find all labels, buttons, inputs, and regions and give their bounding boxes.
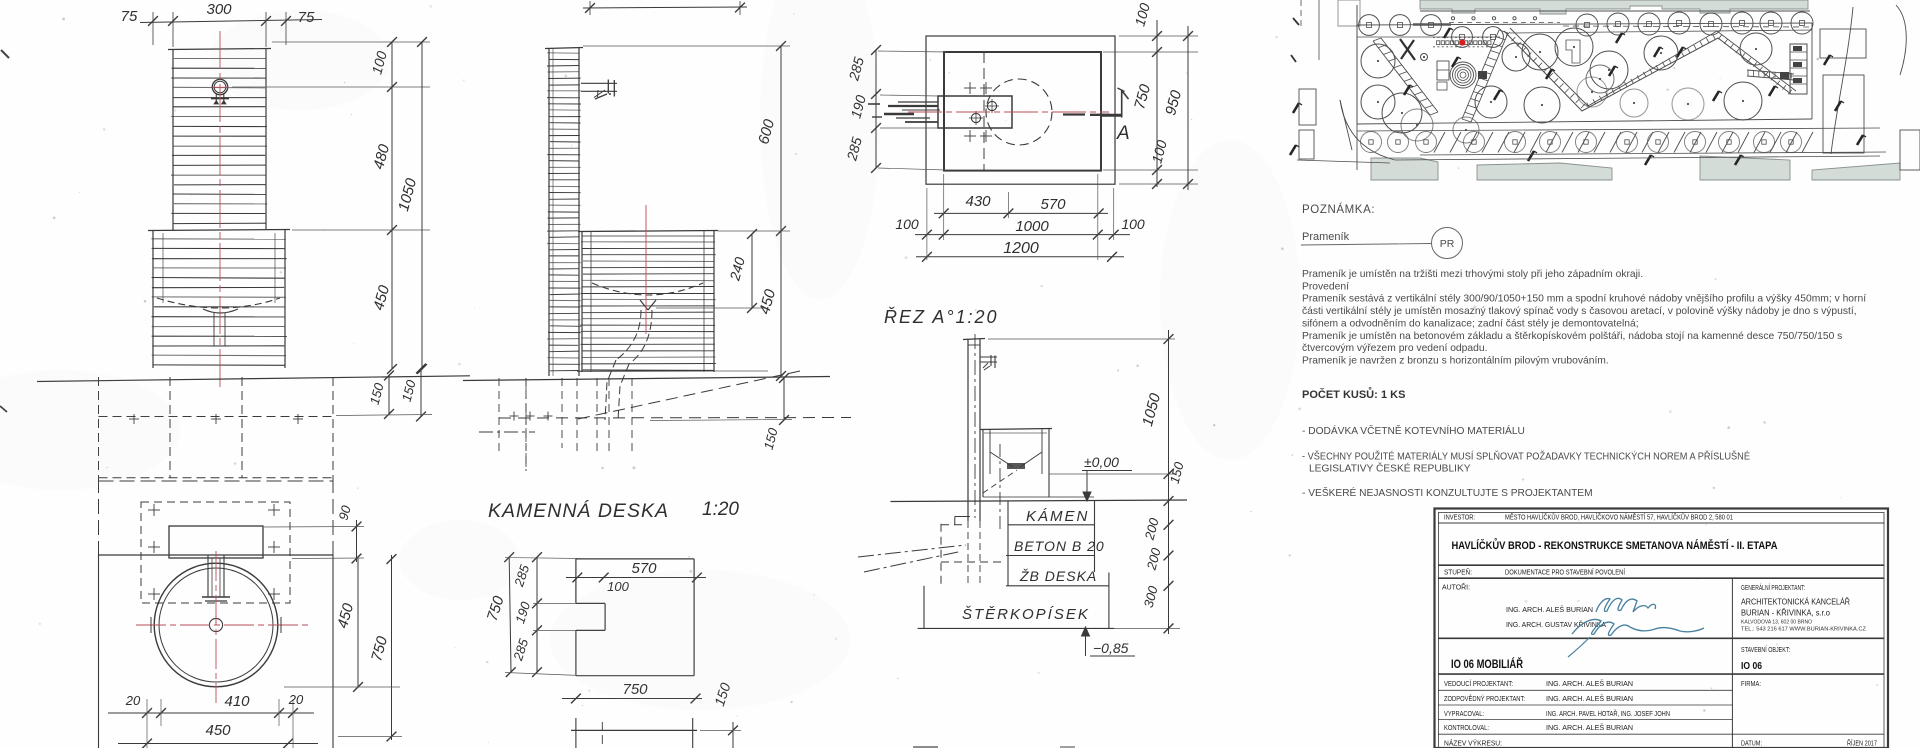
front elevation red center line bbox=[219, 31, 221, 387]
svg-text:části vertikální stély je umís: části vertikální stély je umístěn mosazn… bbox=[1302, 306, 1857, 317]
top plan left scribble strokes bbox=[868, 102, 940, 122]
top plan outer rectangle bbox=[926, 36, 1115, 184]
rez foundation layer zb deska bbox=[1006, 568, 1109, 628]
top plan bottom dimensions 430/570 100/1000/100 1200 bbox=[895, 174, 1145, 262]
svg-text:POČET KUSŮ:: POČET KUSŮ: bbox=[1302, 387, 1378, 401]
svg-text:20: 20 bbox=[288, 692, 304, 707]
top plan stele plate with bolt circles bbox=[938, 82, 1012, 142]
site plan bottom tree row bbox=[1361, 132, 1802, 153]
svg-text:ŠTĚRKOPÍSEK: ŠTĚRKOPÍSEK bbox=[962, 606, 1090, 623]
front elevation dashed foundation below ground bbox=[99, 377, 334, 478]
top plan inner rectangle bbox=[944, 52, 1101, 171]
svg-text:ING. ARCH. ALEŠ BURIAN: ING. ARCH. ALEŠ BURIAN bbox=[1546, 679, 1633, 688]
svg-text:STAVEBNÍ OBJEKT:: STAVEBNÍ OBJEKT: bbox=[1741, 645, 1790, 654]
notes bullet vsechny bbox=[1302, 450, 1750, 475]
svg-text:ING. ARCH. ALEŠ BURIAN: ING. ARCH. ALEŠ BURIAN bbox=[1546, 723, 1633, 732]
rez basin in section bbox=[980, 429, 1052, 530]
svg-text:- DODÁVKA VČETNĚ KOTEVNÍHO MAT: - DODÁVKA VČETNĚ KOTEVNÍHO MATERIÁLU bbox=[1302, 424, 1525, 437]
svg-text:75: 75 bbox=[121, 8, 138, 25]
svg-text:Prameník je navržen z bronzu s: Prameník je navržen z bronzu s horizontá… bbox=[1302, 356, 1609, 367]
side elevation cropped top dimension bbox=[583, 1, 747, 15]
plan view stele rectangle bbox=[169, 526, 263, 558]
front elevation stele column outline bbox=[168, 49, 271, 231]
site plan right side blocks bbox=[1820, 5, 1920, 170]
side elevation right dimensions 600/240/450 bbox=[583, 41, 790, 381]
site plan ladder path left bbox=[1373, 38, 1438, 115]
svg-text:VYPRACOVAL:: VYPRACOVAL: bbox=[1444, 711, 1484, 718]
svg-text:DOKUMENTACE PRO STAVEBNÍ POVOL: DOKUMENTACE PRO STAVEBNÍ POVOLENÍ bbox=[1505, 568, 1625, 577]
site plan plaza boundary bbox=[1357, 5, 1812, 124]
title block row vypracoval bbox=[1438, 709, 1732, 720]
title block outer frame bbox=[1435, 509, 1889, 748]
svg-text:INVESTOR:: INVESTOR: bbox=[1444, 515, 1475, 522]
top plan dashed circle of basin bbox=[986, 79, 1052, 145]
plan view inner dashed anchor square bbox=[141, 502, 290, 603]
svg-text:570: 570 bbox=[1040, 196, 1066, 213]
svg-text:100: 100 bbox=[1121, 216, 1145, 232]
svg-text:čtvercovým výřezem pro vedení: čtvercovým výřezem pro vedení odpadu. bbox=[1302, 343, 1487, 354]
svg-text:POZNÁMKA:: POZNÁMKA: bbox=[1302, 203, 1375, 216]
top plan red center line horizontal bbox=[908, 112, 1110, 115]
svg-text:DATUM:: DATUM: bbox=[1741, 741, 1762, 748]
rez section title bbox=[884, 307, 999, 327]
svg-text:IO 06 MOBILIÁŘ: IO 06 MOBILIÁŘ bbox=[1451, 656, 1523, 671]
svg-text:ŘÍJEN 2017: ŘÍJEN 2017 bbox=[1847, 739, 1877, 748]
svg-text:1200: 1200 bbox=[1003, 240, 1039, 257]
kamenna deska top dimension 570 and 100 bbox=[566, 560, 706, 594]
top plan dashed center line vertical bbox=[983, 52, 985, 170]
side elevation faucet bbox=[581, 80, 617, 100]
svg-text:IO 06: IO 06 bbox=[1741, 660, 1762, 672]
svg-text:ŽB DESKA: ŽB DESKA bbox=[1019, 568, 1097, 584]
svg-text:1:20: 1:20 bbox=[702, 499, 739, 520]
kamenna deska left dimensions 750 and 285/190/285 bbox=[484, 552, 580, 677]
svg-text:ING. ARCH. PAVEL HOTAŘ, ING. J: ING. ARCH. PAVEL HOTAŘ, ING. JOSEF JOHN bbox=[1546, 709, 1670, 718]
svg-text:KÁMEN: KÁMEN bbox=[1026, 508, 1089, 525]
site plan top tree row bbox=[1359, 12, 1813, 47]
svg-text:430: 430 bbox=[965, 193, 991, 210]
svg-text:VEDOUCÍ PROJEKTANT:: VEDOUCÍ PROJEKTANT: bbox=[1444, 679, 1513, 688]
svg-text:Provedení: Provedení bbox=[1302, 281, 1349, 292]
rez foundation layer beton bbox=[1006, 538, 1105, 556]
title block generalni projektant bbox=[1741, 583, 1867, 633]
svg-text:ING. ARCH. GUSTAV KŘIVINKA: ING. ARCH. GUSTAV KŘIVINKA bbox=[1506, 620, 1606, 629]
svg-text:GENERÁLNÍ PROJEKTANT:: GENERÁLNÍ PROJEKTANT: bbox=[1741, 583, 1805, 592]
svg-text:- VŠECHNY POUŽITÉ MATERIÁLY MU: - VŠECHNY POUŽITÉ MATERIÁLY MUSÍ SPLŇOVA… bbox=[1302, 450, 1750, 463]
svg-text:AUTOŘI:: AUTOŘI: bbox=[1442, 583, 1470, 592]
top plan left dimensions 285/190/285 bbox=[843, 45, 946, 173]
ground line right drawing bbox=[463, 377, 830, 381]
title block row zodpovedny projektant bbox=[1438, 694, 1732, 705]
top plan section arrow A bbox=[1100, 88, 1130, 144]
svg-text:ŘEZ A°1:20: ŘEZ A°1:20 bbox=[884, 307, 999, 327]
title block row vedouci projektant bbox=[1438, 679, 1761, 690]
top plan right dimensions 100/750/100 and 950 bbox=[1103, 1, 1198, 190]
svg-text:FIRMA:: FIRMA: bbox=[1741, 681, 1761, 688]
notes paragraph bbox=[1302, 269, 1866, 367]
rez foundation layer sterkopisek bbox=[918, 586, 1115, 629]
svg-text:Prameník je umístěn na tržišti: Prameník je umístěn na tržišti mezi trho… bbox=[1302, 269, 1643, 280]
svg-text:1000: 1000 bbox=[1015, 218, 1049, 235]
site plan facade column circles bbox=[1413, 17, 1810, 27]
svg-text:KAMENNÁ DESKA: KAMENNÁ DESKA bbox=[488, 499, 669, 522]
site plan market stalls strip with red dot bbox=[1433, 38, 1492, 47]
site plan right kiosk with cells bbox=[1780, 44, 1807, 94]
svg-text:sifónem a odvodněním do kanali: sifónem a odvodněním do kanalizace; zadn… bbox=[1302, 318, 1639, 329]
front elevation right dimension lines 100/480/450 and 1050 bbox=[232, 37, 430, 374]
rez level mark minus 0,85 bbox=[1082, 627, 1136, 656]
title block row nazev vykresu and datum bbox=[1444, 739, 1877, 748]
front elevation stele groove hatching bbox=[171, 59, 267, 224]
title block project title bbox=[1438, 538, 1884, 565]
svg-text:HAVLÍČKŮV BROD - REKONSTRUKCE: HAVLÍČKŮV BROD - REKONSTRUKCE SMETANOVA … bbox=[1452, 538, 1778, 552]
svg-text:Prameník: Prameník bbox=[1302, 231, 1350, 243]
svg-text:Prameník je umístěn na betonov: Prameník je umístěn na betonovém základu… bbox=[1302, 331, 1842, 342]
rez right dimension line 1050/150/200/200/300 bbox=[988, 330, 1187, 634]
svg-text:450: 450 bbox=[205, 722, 231, 739]
side elevation stele hatching bbox=[547, 53, 581, 371]
svg-text:1 KS: 1 KS bbox=[1381, 389, 1405, 401]
title block row autori bbox=[1438, 578, 1884, 748]
svg-text:BETON B 20: BETON B 20 bbox=[1014, 538, 1105, 554]
rez level mark plus 0,00 bbox=[1082, 454, 1132, 501]
kamenna deska right dimension 150 bbox=[700, 681, 741, 748]
site plan left small buildings bbox=[1291, 0, 1319, 159]
site plan buildings light fill top band bbox=[1338, 0, 1808, 26]
rez buried stele part and dashed foundation bbox=[941, 517, 1006, 587]
title block row IO 06 MOBILIAR bbox=[1438, 645, 1884, 674]
side elevation red center line bbox=[645, 205, 647, 334]
site plan bottom boundary lines bbox=[1297, 100, 1880, 170]
front elevation top dimension line 75/300/75 bbox=[121, 1, 322, 47]
svg-text:NÁZEV VÝKRESU:: NÁZEV VÝKRESU: bbox=[1444, 739, 1502, 748]
site plan buildings bottom band bbox=[1371, 156, 1900, 180]
side elevation stele column outline bbox=[545, 48, 583, 377]
side elevation bowl and drain pipe bbox=[592, 283, 703, 420]
svg-text:ZODPOVĚDNÝ PROJEKTANT:: ZODPOVĚDNÝ PROJEKTANT: bbox=[1444, 694, 1525, 703]
title block row kontroloval bbox=[1438, 723, 1884, 734]
rez foundation layer kamen bbox=[1008, 501, 1095, 586]
plan view basin circles bbox=[154, 563, 278, 687]
rez stele column bbox=[963, 334, 985, 521]
side elevation basin hatching bbox=[580, 242, 716, 371]
site plan dark bench marks bbox=[1290, 28, 1866, 165]
side elevation basin outline bbox=[577, 231, 768, 373]
site plan small kiosk rect bbox=[1437, 61, 1449, 90]
svg-text:20: 20 bbox=[125, 693, 141, 708]
svg-text:A: A bbox=[1116, 123, 1130, 144]
plan view red crosshair bbox=[136, 551, 311, 703]
svg-text:ING. ARCH. ALEŠ BURIAN: ING. ARCH. ALEŠ BURIAN bbox=[1546, 694, 1633, 703]
svg-text:ARCHITEKTONICKÁ KANCELÁŘ: ARCHITEKTONICKÁ KANCELÁŘ bbox=[1741, 597, 1850, 607]
plan view right dimensions 90/450/750 bbox=[264, 503, 402, 741]
svg-text:BURIAN - KŘIVINKA, s.r.o: BURIAN - KŘIVINKA, s.r.o bbox=[1741, 608, 1830, 618]
plan view bottom dimensions 20/410/20 and 450 bbox=[108, 692, 318, 748]
title block row stupen bbox=[1438, 568, 1884, 579]
side elevation dashed foundation bbox=[479, 371, 851, 471]
side elevation below-ground 150 dimension bbox=[650, 373, 792, 451]
site plan bottom walkway hatched band bbox=[1357, 128, 1886, 155]
svg-text:- VEŠKERÉ NEJASNOSTI KONZULTUJ: - VEŠKERÉ NEJASNOSTI KONZULTUJTE S PROJE… bbox=[1302, 486, 1593, 499]
svg-text:MĚSTO HAVLÍČKŮV BROD, HAVLÍČKO: MĚSTO HAVLÍČKŮV BROD, HAVLÍČKOVO NÁMĚSTÍ… bbox=[1505, 513, 1733, 522]
front elevation basin hatching bbox=[151, 239, 287, 365]
rez faucet bbox=[980, 355, 997, 370]
title block row investor bbox=[1438, 513, 1884, 524]
notes pocet kusu bbox=[1302, 387, 1405, 401]
site plan zigzag promenade bbox=[1504, 28, 1796, 111]
kamenna deska bottom dimension 750 bbox=[562, 681, 702, 703]
svg-text:−0,85: −0,85 bbox=[1093, 640, 1129, 656]
notes heading POZNAMKA bbox=[1302, 203, 1375, 216]
notes bullet veskere bbox=[1302, 486, 1593, 499]
site plan X mark bbox=[1400, 39, 1415, 60]
svg-text:300: 300 bbox=[206, 1, 232, 18]
plan view spigot detail bbox=[202, 555, 230, 601]
site plan ladder path steep center bbox=[1462, 30, 1508, 122]
svg-text:ING. ARCH. ALEŠ BURIAN: ING. ARCH. ALEŠ BURIAN bbox=[1506, 605, 1593, 614]
site plan large trees bbox=[1361, 28, 1772, 143]
plan view stone slab top edge bbox=[99, 555, 334, 748]
svg-text:KONTROLOVAL:: KONTROLOVAL: bbox=[1444, 725, 1489, 732]
front elevation below-ground 150 dimensions bbox=[336, 364, 432, 422]
svg-text:100: 100 bbox=[895, 216, 919, 232]
notes pramenik label with PR bubble bbox=[1301, 228, 1463, 259]
front elevation basin bowl dashed curve bbox=[157, 298, 280, 346]
site plan horizontal ladder bridge bbox=[1747, 70, 1794, 80]
svg-text:PR: PR bbox=[1440, 238, 1455, 250]
kamenna deska plate outline with notch bbox=[576, 559, 694, 676]
svg-text:Prameník sestává z vertikální: Prameník sestává z vertikální stély 300/… bbox=[1302, 294, 1866, 305]
svg-text:STUPEŇ:: STUPEŇ: bbox=[1444, 568, 1472, 577]
title block signature bbox=[1568, 598, 1704, 657]
plan view outer dashed foundation square bbox=[99, 478, 334, 712]
svg-text:±0,00: ±0,00 bbox=[1084, 454, 1119, 470]
svg-text:LEGISLATIVY ČESKÉ REPUBLIKY: LEGISLATIVY ČESKÉ REPUBLIKY bbox=[1309, 462, 1471, 475]
front elevation water spout button bbox=[211, 79, 229, 104]
site plan fountain concentric circles bbox=[1450, 62, 1487, 88]
kamenna deska side view partial bottom bbox=[571, 718, 697, 748]
site plan L-shaped building outline bbox=[1566, 40, 1580, 63]
svg-text:TEL.: 543 216 617 WWW.BURI: TEL.: 543 216 617 WWW.BURIAN-KRIVINKA.CZ bbox=[1741, 627, 1867, 633]
front elevation basin outline bbox=[148, 230, 290, 369]
svg-text:KALVODOVA 13, 602 00 BRNO: KALVODOVA 13, 602 00 BRNO bbox=[1741, 620, 1813, 626]
ground line left drawing bbox=[37, 376, 470, 382]
rez ground and slab top line bbox=[891, 497, 1188, 502]
svg-text:410: 410 bbox=[224, 693, 250, 710]
notes bullet dodavka bbox=[1302, 424, 1525, 437]
kamenna deska title bbox=[488, 499, 739, 522]
rez left dash-dot diagonals bbox=[858, 545, 966, 572]
